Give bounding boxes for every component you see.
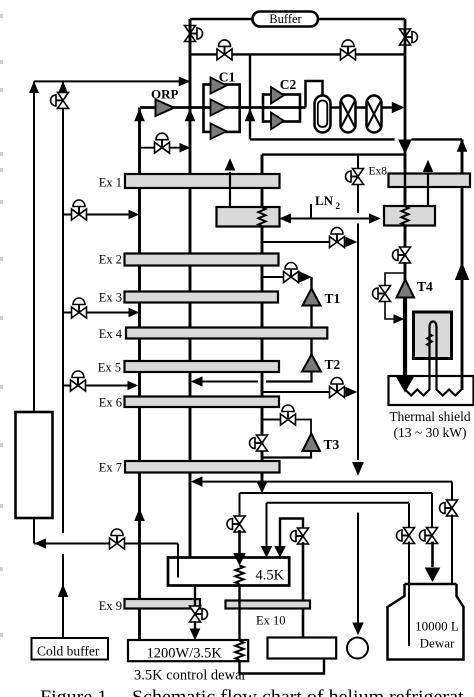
control valve CV-y543	[110, 529, 125, 549]
svg-text:Ex 5: Ex 5	[98, 361, 121, 375]
valve V-T4-bypass	[373, 286, 391, 302]
caption figure	[40, 687, 464, 697]
wire LP return y139 right seg	[412, 138, 463, 140]
wire line3 y503	[267, 502, 410, 504]
wire main column x190	[189, 19, 192, 557]
flow arrow right into x190 y81	[179, 77, 189, 85]
svg-text:Thermal shield: Thermal shield	[389, 409, 471, 424]
flow arrow up x462 mid	[456, 264, 469, 280]
T4 bypass loop	[385, 273, 405, 323]
svg-text:Ex 3: Ex 3	[99, 291, 122, 305]
turbine T2	[302, 355, 341, 373]
vent line x428 with arrow	[423, 161, 432, 206]
svg-text:Dewar: Dewar	[420, 636, 455, 651]
svg-text:3.5K control dewar: 3.5K control dewar	[134, 668, 247, 684]
compressor C2	[263, 77, 300, 129]
flow arrow up x63 top	[59, 83, 67, 93]
control valve CV-x139-x190 bypass	[140, 133, 189, 153]
buffer tank label line left	[190, 18, 253, 20]
vent line x230 with arrow	[225, 160, 234, 208]
valve V-x452	[440, 500, 458, 516]
svg-text:Ex 4: Ex 4	[99, 327, 123, 341]
box 4.5K bath	[168, 558, 289, 586]
wire cold return x462	[461, 139, 464, 390]
valve V-x303	[291, 528, 309, 544]
svg-text:T4: T4	[417, 279, 433, 294]
heat exchanger Ex5	[98, 361, 279, 375]
svg-text:Ex 10: Ex 10	[256, 614, 286, 628]
LN2 bath right	[384, 206, 435, 226]
buffer tank label line right	[317, 18, 405, 20]
wire T1 to T2	[310, 306, 312, 356]
svg-text:Schematic flow chart of helium: Schematic flow chart of helium refrigera…	[132, 687, 464, 697]
cold adsorber vessel	[16, 412, 53, 518]
coil in left bath	[258, 208, 265, 227]
wire x405 valve to T4	[404, 262, 407, 281]
svg-text:Ex 9: Ex 9	[99, 599, 122, 613]
svg-text:Figure 1.: Figure 1.	[40, 687, 112, 697]
node ORP corner x140	[139, 106, 142, 109]
flow arrow up x139 bottom	[135, 510, 144, 521]
heat exchanger Ex10	[226, 601, 311, 628]
svg-text:(13 ~ 30 kW): (13 ~ 30 kW)	[394, 425, 467, 440]
pump circle	[347, 638, 368, 659]
wire T3 outlet	[262, 451, 311, 458]
control valve CV-top-2	[341, 40, 356, 60]
flow arrow down x266 into box	[262, 547, 272, 557]
svg-text:4.5K: 4.5K	[256, 568, 285, 584]
heat exchanger Ex2	[99, 253, 279, 267]
valve V-x63	[51, 92, 69, 108]
svg-text:Ex8: Ex8	[368, 166, 387, 178]
valve V-buffer-left	[185, 26, 203, 42]
vessel oil separator	[315, 96, 331, 133]
wire buffer bypass header y54	[190, 53, 405, 55]
box subcooler	[268, 638, 337, 659]
wire T1 inlet y277	[262, 276, 283, 278]
control valve CV-T1	[284, 263, 299, 283]
wire y242 to x358	[262, 238, 356, 247]
valve V-x358	[346, 169, 364, 185]
valve line A y214	[63, 200, 138, 220]
wire recycle column x262	[261, 155, 264, 488]
wire y154 recycle header	[262, 153, 404, 155]
valve line B y312	[63, 298, 138, 318]
svg-text:Cold buffer: Cold buffer	[37, 644, 100, 659]
wire dryer1 to dryer2	[356, 106, 367, 109]
valve V-x195	[190, 606, 208, 622]
wire riser after C2	[306, 81, 323, 108]
control valve CV-y392	[330, 378, 345, 398]
wire x250 from header	[249, 54, 251, 139]
wire line1 corner x452	[451, 482, 453, 502]
svg-text:2: 2	[336, 201, 341, 211]
wire x452 to dewar neck	[451, 515, 453, 585]
LN2 supply arrow	[281, 193, 380, 223]
wire y543 JT line	[34, 539, 178, 548]
valve V-buffer-right	[400, 29, 418, 45]
wire left column x63 upper	[62, 81, 64, 533]
wire vessel bottom to y543	[33, 518, 35, 544]
flow arrow down x280 into box	[275, 547, 285, 557]
vessel dryer 2	[367, 96, 382, 133]
heat exchanger Ex8	[368, 166, 470, 188]
control valve CV-y242	[330, 228, 345, 248]
svg-text:Ex 1: Ex 1	[99, 176, 122, 190]
box 1200W 3.5K dewar	[128, 640, 248, 662]
box cold buffer	[32, 638, 109, 660]
wire subcooler return U	[240, 659, 325, 674]
svg-text:ORP: ORP	[151, 87, 179, 102]
flow arrow up x34 top	[30, 83, 38, 93]
vessel dryer 1	[341, 96, 356, 133]
svg-text:Ex 7: Ex 7	[99, 461, 122, 475]
thermal shield box	[389, 376, 474, 405]
svg-text:1200W/3.5K: 1200W/3.5K	[147, 646, 223, 662]
flow arrow down T4 exhaust	[397, 378, 413, 392]
hairpin coil legs	[427, 322, 437, 391]
wire y392 to x358	[262, 388, 356, 397]
wire HP column x405 upper	[404, 19, 407, 298]
svg-text:10000 L: 10000 L	[415, 619, 459, 634]
wire x409 dip tube	[408, 542, 410, 647]
coil in right bath	[401, 207, 408, 226]
wire T3 inlet y419	[262, 419, 280, 421]
valve V-x262	[250, 435, 268, 451]
wire x239 below Ex10	[238, 586, 240, 642]
turbine T4	[397, 279, 434, 298]
wire line1 y481.5	[192, 477, 452, 486]
turbine T1	[303, 277, 341, 306]
wire T3 inlet elbow	[296, 420, 312, 435]
flow arrow up x462 into y139	[457, 140, 466, 151]
pump ORP	[151, 87, 179, 117]
page edge artifacts	[0, 14, 3, 637]
wire dryer2 to x405 with arrow	[382, 103, 404, 113]
coil in 1200W box	[235, 641, 243, 660]
control valve CV-T3	[281, 405, 296, 425]
shield heater zigzag right	[437, 390, 462, 396]
wire suction header y107.5	[140, 106, 306, 109]
wire x303 down to subcooler	[302, 542, 305, 638]
wire LP return y139 left seg	[250, 138, 395, 140]
flow arrow into T1	[298, 272, 311, 283]
flow arrow down into dewar	[426, 568, 440, 581]
valve V-x405-T4	[393, 247, 411, 263]
svg-text:C2: C2	[280, 77, 297, 92]
shield heater zigzag left	[405, 390, 430, 396]
wire line3 left corner	[266, 503, 268, 547]
heat exchanger Ex6	[99, 396, 279, 410]
dewar 10000L	[388, 584, 464, 660]
wire x195 to control dewar	[190, 621, 199, 639]
wire T4 exhaust thick	[403, 298, 407, 379]
down arrow indicator x358	[353, 463, 363, 475]
heat exchanger Ex1	[99, 174, 280, 190]
heater box gray	[414, 312, 452, 359]
buffer tank	[253, 12, 319, 27]
svg-text:T1: T1	[325, 291, 341, 306]
flow arrow down x358 to pump	[353, 623, 363, 634]
wire T2 outlet	[192, 372, 312, 386]
heat exchanger Ex9	[99, 599, 200, 613]
wire sep to dryer1	[331, 106, 341, 109]
valve V-x432	[420, 528, 438, 544]
wire x239 to 4.5K box	[238, 530, 241, 553]
wire left column x34	[33, 81, 35, 412]
valve V-x409	[397, 528, 415, 544]
wire x358 lower	[357, 513, 359, 624]
svg-text:T2: T2	[325, 357, 341, 372]
flow arrow down x262 into y493	[258, 483, 266, 492]
wire line2 left corner	[239, 493, 241, 518]
flow arrow up x139 top	[135, 110, 144, 121]
flow arrow up x190 into suction	[185, 110, 194, 121]
wire x63 lower	[62, 554, 64, 638]
LN2 bath left	[217, 207, 280, 227]
turbine T3	[303, 434, 340, 453]
wire x405 through Ex8	[404, 153, 407, 207]
control valve CV-top-1	[217, 40, 232, 60]
wire x432 to dewar thick	[431, 542, 434, 568]
svg-text:Ex 2: Ex 2	[99, 253, 122, 267]
compressor C1	[204, 70, 240, 140]
wire cold box column x139	[138, 108, 141, 641]
wire y81 from left columns	[34, 80, 186, 82]
flow arrow up x63 lower	[58, 586, 67, 597]
wire line3 right corner	[408, 503, 410, 530]
wire line2 y493	[240, 492, 433, 494]
wire x358 upper	[357, 155, 359, 213]
flow arrow down x239 into box	[234, 554, 245, 565]
valve line C y385	[63, 371, 137, 391]
wire x358 mid	[357, 224, 359, 461]
svg-text:Buffer: Buffer	[269, 12, 302, 26]
label thermal shield	[389, 409, 471, 440]
wire x405 bath to valve	[404, 225, 407, 248]
flow arrow up x250 into suction	[245, 110, 254, 121]
heat exchanger Ex7	[99, 461, 280, 475]
U loop from 4.5K box	[280, 519, 303, 548]
valve V-x239	[227, 516, 245, 532]
flow arrow down x405	[399, 140, 411, 153]
wire line2 right corner	[431, 493, 433, 530]
coil in 4.5K box	[235, 566, 243, 585]
svg-text:T3: T3	[324, 437, 340, 452]
wire x195 from 4.5K box	[194, 586, 196, 608]
heat exchanger Ex4	[99, 327, 328, 341]
wire y543 dip into 4.5K box	[177, 544, 179, 578]
svg-text:LN: LN	[315, 193, 334, 208]
label 3.5K control dewar	[134, 668, 247, 684]
svg-text:Ex 6: Ex 6	[99, 396, 122, 410]
heat exchanger Ex3	[99, 291, 278, 305]
svg-text:C1: C1	[219, 70, 236, 85]
